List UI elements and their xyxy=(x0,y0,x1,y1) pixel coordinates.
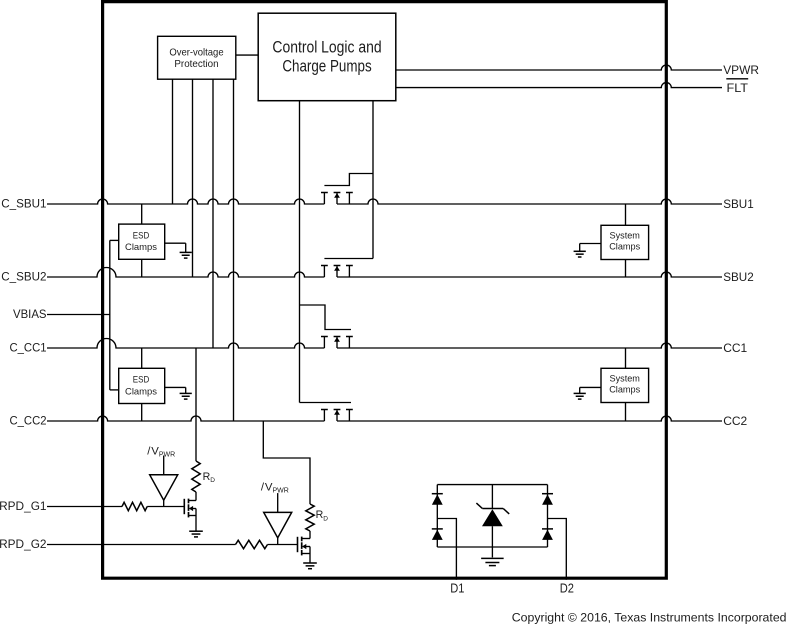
svg-text:SBU2: SBU2 xyxy=(723,270,754,284)
svg-text:D1: D1 xyxy=(450,580,464,595)
svg-text:CC2: CC2 xyxy=(723,414,747,428)
svg-text:Copyright © 2016, Texas Instru: Copyright © 2016, Texas Instruments Inco… xyxy=(512,611,787,625)
svg-text:CC1: CC1 xyxy=(723,341,747,355)
svg-text:C_SBU1: C_SBU1 xyxy=(1,197,47,211)
svg-text:System: System xyxy=(610,374,641,384)
svg-text:C_CC2: C_CC2 xyxy=(10,414,47,428)
svg-text:D2: D2 xyxy=(560,580,574,595)
svg-text:RPD_G2: RPD_G2 xyxy=(0,537,47,551)
svg-text:VBIAS: VBIAS xyxy=(13,307,47,321)
svg-text:Clamps: Clamps xyxy=(609,385,640,395)
svg-text:ESD: ESD xyxy=(133,375,150,385)
svg-text:Clamps: Clamps xyxy=(125,386,157,396)
svg-text:Over-voltage: Over-voltage xyxy=(169,47,223,58)
svg-text:Control Logic and: Control Logic and xyxy=(272,37,381,56)
svg-text:Clamps: Clamps xyxy=(609,242,640,252)
svg-text:C_SBU2: C_SBU2 xyxy=(1,270,47,284)
svg-text:C_CC1: C_CC1 xyxy=(10,341,47,355)
svg-text:VPWR: VPWR xyxy=(723,63,759,77)
svg-text:FLT: FLT xyxy=(727,81,749,95)
svg-text:Clamps: Clamps xyxy=(125,242,157,252)
svg-text:ESD: ESD xyxy=(133,230,150,240)
svg-text:System: System xyxy=(610,231,641,241)
svg-text:Protection: Protection xyxy=(174,59,218,70)
svg-text:Charge Pumps: Charge Pumps xyxy=(282,56,371,75)
svg-text:SBU1: SBU1 xyxy=(723,197,754,211)
svg-text:RPD_G1: RPD_G1 xyxy=(0,499,47,513)
